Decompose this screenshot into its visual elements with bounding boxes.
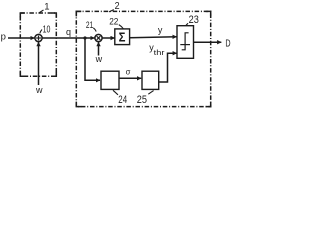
box 22 sigma accumulator (115, 29, 130, 45)
label D (225, 38, 230, 49)
wire w input to multiplier (98, 42, 100, 55)
wire box24 to box25 (119, 77, 141, 79)
label 25 leader (148, 91, 153, 95)
label w (multiplier input) (95, 54, 103, 64)
wire multiplier to box 22 (102, 37, 115, 39)
svg-text:w: w (95, 54, 103, 64)
multiplier 21 (95, 34, 102, 41)
svg-text:10: 10 (43, 24, 51, 35)
dashed box 1 (20, 13, 56, 76)
box 25 (142, 71, 159, 89)
svg-text:21: 21 (86, 20, 93, 31)
svg-text:1: 1 (44, 2, 49, 13)
label 25 (137, 94, 147, 106)
box 24 (101, 71, 119, 89)
svg-text:24: 24 (118, 94, 127, 106)
svg-text:2: 2 (115, 0, 120, 12)
label sigma (126, 66, 131, 76)
svg-text:22: 22 (109, 16, 118, 26)
wire box25 to comparator ythr input (159, 53, 177, 82)
label 21 leader (93, 28, 96, 32)
svg-text:y: y (158, 25, 163, 35)
label 2 (115, 0, 120, 12)
summing junction 10 (35, 34, 42, 41)
input p label (1, 32, 6, 43)
wire junction down to box 24 (85, 38, 100, 80)
svg-text:D: D (225, 38, 230, 49)
label 22 leader (119, 25, 124, 29)
box 23 comparator (177, 26, 194, 59)
label 2 leader (109, 10, 114, 12)
svg-text:q: q (66, 27, 71, 37)
svg-text:w: w (35, 85, 43, 95)
svg-text:25: 25 (137, 94, 147, 106)
label 10 (43, 24, 51, 35)
label y_thr (149, 43, 165, 58)
wire p to summer (8, 37, 35, 39)
wire y box22 to box23 (130, 37, 177, 38)
svg-text:thr: thr (154, 48, 165, 57)
label 1 leader (39, 10, 44, 13)
label 23 (189, 14, 199, 26)
svg-text:σ: σ (126, 66, 131, 76)
label 24 (118, 94, 127, 106)
label y (158, 25, 163, 35)
label 21 (86, 20, 93, 31)
dashed box 2 (76, 11, 210, 106)
svg-text:Σ: Σ (119, 30, 126, 45)
wire summer to junction q (42, 37, 85, 39)
label q (66, 27, 71, 37)
svg-text:p: p (1, 32, 6, 43)
wire w input to summer (38, 42, 40, 85)
label w (summer input) (35, 85, 43, 95)
label 23 leader (186, 23, 188, 26)
wire output to D (194, 41, 222, 43)
svg-text:23: 23 (189, 14, 199, 26)
node junction (83, 36, 86, 39)
label 10 leader (40, 30, 42, 34)
wire junction to multiplier (85, 37, 95, 39)
comparator step symbol (180, 33, 190, 50)
label 22 (109, 16, 118, 26)
label 1 (44, 2, 49, 13)
label 24 leader (113, 90, 118, 95)
